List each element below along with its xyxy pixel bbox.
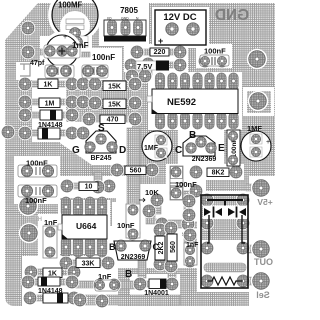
svg-text:560: 560 [130, 168, 142, 175]
svg-text:+5V: +5V [257, 197, 273, 207]
svg-text:10nF: 10nF [117, 221, 135, 230]
svg-text:OUT: OUT [254, 257, 274, 267]
svg-text:1K: 1K [44, 82, 53, 89]
svg-text:1N4148: 1N4148 [38, 288, 63, 295]
svg-text:100nF: 100nF [25, 196, 47, 205]
svg-text:100nF: 100nF [92, 53, 115, 62]
svg-text:S: S [98, 123, 105, 134]
svg-text:15K: 15K [108, 102, 121, 109]
svg-text:1nF: 1nF [186, 242, 199, 249]
svg-text:B: B [125, 269, 132, 280]
svg-text:100MF: 100MF [58, 1, 83, 10]
svg-text:1mF: 1mF [72, 41, 89, 50]
svg-text:12V DC: 12V DC [163, 12, 196, 23]
svg-text:220: 220 [154, 49, 166, 56]
svg-text:1MF: 1MF [144, 145, 159, 152]
svg-text:E: E [218, 143, 225, 154]
svg-text:GND: GND [215, 7, 249, 24]
svg-text:G: G [72, 145, 80, 156]
svg-text:U664: U664 [76, 221, 97, 231]
svg-text:2K2: 2K2 [158, 241, 165, 254]
svg-text:560: 560 [170, 241, 177, 253]
svg-text:2N2369: 2N2369 [192, 156, 217, 163]
svg-text:100nF: 100nF [231, 139, 238, 158]
svg-text:Sel: Sel [256, 290, 270, 300]
svg-text:B: B [109, 242, 116, 252]
svg-text:1nF: 1nF [98, 272, 112, 281]
svg-text:BF245: BF245 [90, 155, 111, 162]
svg-text:+: + [63, 34, 67, 41]
svg-text:+: + [266, 139, 270, 146]
svg-text:7805: 7805 [120, 6, 138, 15]
svg-text:100nF: 100nF [175, 180, 197, 189]
svg-text:33K: 33K [82, 261, 95, 268]
svg-text:B: B [189, 130, 196, 141]
svg-text:1nF: 1nF [44, 218, 58, 227]
svg-text:15K: 15K [108, 84, 121, 91]
svg-text:1N4148: 1N4148 [38, 122, 63, 129]
svg-text:1M: 1M [45, 101, 55, 108]
svg-text:7,5V: 7,5V [137, 62, 152, 71]
svg-text:2N2369: 2N2369 [121, 254, 146, 261]
svg-text:470: 470 [107, 117, 119, 124]
svg-text:+: + [158, 36, 163, 46]
svg-text:D: D [119, 145, 126, 156]
svg-text:GND: GND [121, 17, 129, 21]
svg-text:100nF: 100nF [26, 159, 48, 168]
svg-text:8K2: 8K2 [212, 170, 225, 177]
svg-text:C: C [153, 242, 160, 252]
svg-text:100nF: 100nF [204, 47, 226, 56]
svg-text:1N4001: 1N4001 [144, 290, 169, 297]
svg-text:1MF: 1MF [247, 124, 262, 133]
svg-text:47pf: 47pf [30, 60, 45, 67]
svg-text:10K: 10K [145, 188, 159, 197]
svg-text:10: 10 [85, 184, 93, 191]
svg-text:I/O: I/O [107, 17, 112, 21]
svg-text:1K: 1K [48, 271, 57, 278]
svg-text:C: C [175, 145, 182, 156]
svg-text:HF: HF [34, 217, 42, 223]
svg-text:NE592: NE592 [167, 97, 196, 108]
